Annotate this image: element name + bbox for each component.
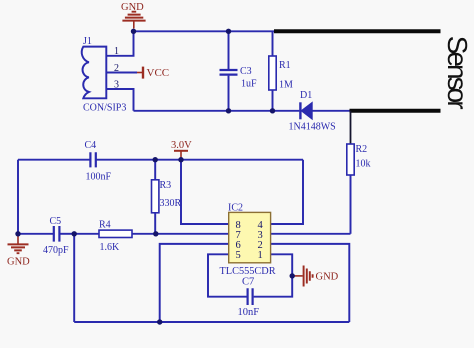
wire bottom rail <box>74 321 349 323</box>
svg-text:C4: C4 <box>85 140 97 151</box>
resistor R2 <box>347 111 371 234</box>
wire pin1 to C7 <box>254 254 293 296</box>
wire top rail GND to R1 <box>134 30 275 32</box>
capacitor C5 <box>18 216 74 256</box>
node junction C5 R4 <box>72 231 77 236</box>
svg-text:5: 5 <box>236 250 241 261</box>
svg-text:10k: 10k <box>356 159 371 170</box>
svg-text:GND: GND <box>316 272 339 283</box>
node junction R3 bottom <box>153 231 158 236</box>
wire row y110 pin3 to diode anode <box>134 110 300 112</box>
svg-text:R3: R3 <box>160 180 172 191</box>
ground GND right (signal) <box>292 266 338 287</box>
connector J1 <box>82 36 127 114</box>
wire junction down to bottom rail <box>73 234 75 322</box>
node junction 3.0V <box>178 157 183 162</box>
svg-text:C3: C3 <box>240 66 252 77</box>
wire pin7 row <box>156 233 229 235</box>
power 3.0V <box>171 140 192 160</box>
svg-text:R2: R2 <box>356 144 368 155</box>
wire pin5 to C7 <box>208 254 247 296</box>
node junction top GND <box>131 29 136 34</box>
wire diode cathode to R2 top / sensor line <box>312 110 353 112</box>
svg-text:1uF: 1uF <box>241 79 257 90</box>
wire pin6 down to bottom rail <box>160 244 229 322</box>
node junction pin1 GND <box>290 273 295 278</box>
svg-text:1.6K: 1.6K <box>100 242 121 253</box>
wire pin2 J1 <box>107 72 138 74</box>
power VCC <box>137 67 169 79</box>
svg-text:3: 3 <box>114 79 119 90</box>
capacitor C4 <box>18 140 303 183</box>
wire pin3 J1 down to row <box>107 89 134 111</box>
resistor R1 <box>269 31 293 111</box>
wire sensor line top (thick) <box>274 29 441 33</box>
ground GND top power symbol <box>121 2 146 29</box>
capacitor C3 <box>220 31 258 111</box>
wire sensor line bottom (thick) <box>350 109 441 113</box>
wire pin1 J1 to top rail <box>107 31 134 56</box>
svg-text:R4: R4 <box>99 220 111 231</box>
resistor R4 <box>74 220 156 254</box>
svg-text:1: 1 <box>114 46 119 57</box>
wire pin8 from 3.0V rail <box>181 160 229 224</box>
svg-text:CON/SIP3: CON/SIP3 <box>83 103 126 114</box>
node junction R1 bottom <box>270 108 275 113</box>
svg-text:C5: C5 <box>50 216 62 227</box>
svg-text:1M: 1M <box>279 80 293 91</box>
svg-text:10nF: 10nF <box>238 307 260 318</box>
capacitor C7 <box>238 277 260 319</box>
node junction C3 bottom <box>226 108 231 113</box>
wire left vertical C4/C5 to ground <box>17 160 19 234</box>
svg-text:D1: D1 <box>300 90 312 101</box>
node junction C3 top <box>226 29 231 34</box>
wire pin2 to bottom rail <box>271 244 350 322</box>
node junction ground left <box>15 231 20 236</box>
IC2 TLC555CDR (555 timer) <box>220 203 276 278</box>
svg-text:C7: C7 <box>242 277 254 288</box>
svg-text:470pF: 470pF <box>43 245 69 256</box>
svg-text:Sensor: Sensor <box>442 36 473 109</box>
svg-text:3.0V: 3.0V <box>171 140 192 151</box>
svg-text:R1: R1 <box>279 60 291 71</box>
svg-text:TLC555CDR: TLC555CDR <box>220 266 276 277</box>
svg-text:GND: GND <box>7 257 30 268</box>
svg-text:J1: J1 <box>83 36 92 47</box>
wire pin4 from 3.0V rail <box>271 160 303 224</box>
svg-text:330R: 330R <box>160 198 182 209</box>
diode D1 <box>289 90 336 133</box>
svg-text:VCC: VCC <box>147 67 170 79</box>
node junction bottom rail <box>157 319 162 324</box>
svg-text:1N4148WS: 1N4148WS <box>289 122 336 133</box>
node junction R3 top <box>153 157 158 162</box>
wire pin3 row to R2 <box>271 233 351 235</box>
resistor R3 <box>152 160 182 234</box>
svg-text:1: 1 <box>258 250 263 261</box>
svg-text:100nF: 100nF <box>86 172 112 183</box>
ground GND left <box>7 234 30 268</box>
